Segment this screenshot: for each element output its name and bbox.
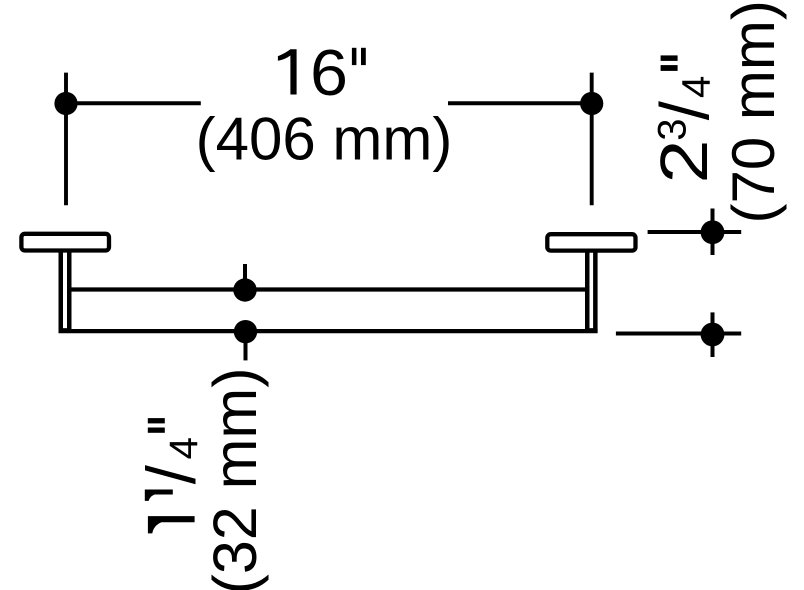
label 1 1/4": inch mark: [148, 418, 165, 423]
svg-text:/: /: [133, 464, 210, 484]
label 1 1/4": fraction slash: [133, 464, 210, 484]
width dimension: right extension line: [590, 73, 594, 206]
bar diameter dimension: bottom terminator dot: [234, 320, 257, 343]
right post (wall bracket stem): [587, 250, 595, 330]
bar diameter dimension: top tick: [243, 264, 247, 285]
towel bar bottom edge: [59, 329, 598, 333]
label: 70 mm (rotated): [720, 0, 787, 223]
svg-text:(32 mm): (32 mm): [201, 367, 269, 590]
right mounting flange: [547, 234, 635, 250]
label 2 3/4": fraction slash: [646, 100, 723, 120]
label 1 1/4": numerator 1: [145, 490, 173, 501]
height dimension: bottom terminator dot: [701, 323, 725, 347]
label 2 3/4": inch mark: [661, 55, 678, 61]
height dimension: bottom tick: [711, 312, 715, 357]
svg-text:4: 4: [162, 437, 206, 459]
svg-text:(70 mm): (70 mm): [720, 0, 787, 223]
label 2 3/4": denominator 4: [675, 76, 719, 98]
svg-text:(406 mm): (406 mm): [196, 105, 453, 172]
width dimension: left extension line: [64, 73, 68, 206]
svg-text:4: 4: [675, 76, 719, 98]
label 16": digit 1: [278, 49, 297, 94]
bar diameter dimension: bottom tick: [244, 338, 248, 360]
height dimension: bottom line: [616, 331, 741, 335]
svg-text:2: 2: [647, 140, 722, 184]
height dimension: top tick: [711, 209, 715, 256]
towel bar top edge: [69, 287, 587, 291]
label 1 1/4": denominator 4: [162, 437, 206, 459]
width dimension line right segment: [448, 101, 594, 105]
left mounting flange: [21, 234, 109, 251]
width dimension line left segment: [64, 101, 201, 105]
label 2 3/4": numerator 3: [650, 119, 694, 141]
svg-text:6: 6: [310, 37, 348, 109]
bar diameter dimension: top terminator dot: [233, 278, 256, 301]
width dimension right terminator dot: [580, 92, 603, 115]
label 1 1/4": digit 1 (rotated): [148, 516, 195, 533]
svg-text:/: /: [646, 100, 723, 120]
height dimension: top line: [648, 230, 742, 234]
svg-text:3: 3: [650, 119, 694, 141]
height dimension: top terminator dot: [701, 220, 725, 244]
width dimension left terminator dot: [54, 92, 77, 115]
label 2 3/4": digit 2 (rotated): [647, 140, 722, 184]
left post (wall bracket stem): [61, 250, 70, 330]
label 16": inch mark: [352, 48, 357, 65]
label: 32 mm (rotated): [201, 367, 269, 590]
